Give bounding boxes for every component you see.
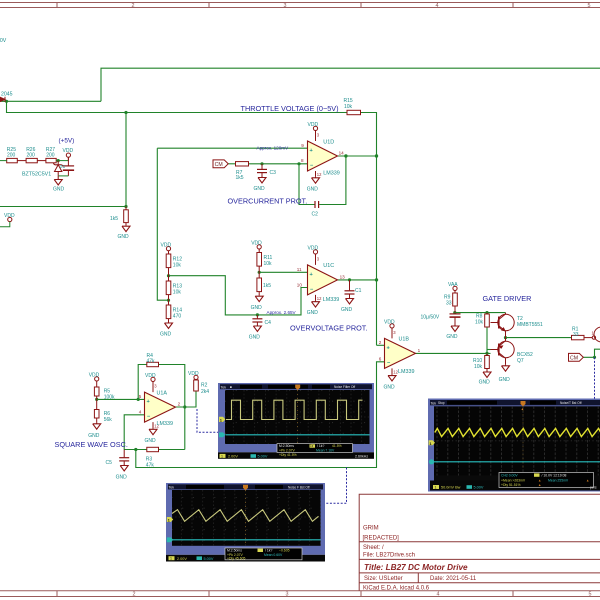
wire R4 feedback left	[138, 365, 147, 400]
wire U1C output	[338, 279, 377, 281]
wire Q7 base stub	[487, 349, 491, 351]
svg-text:GND: GND	[145, 438, 157, 444]
svg-text:+Dty 51.51%: +Dty 51.51%	[501, 483, 521, 487]
power VAA (R9)	[453, 286, 457, 290]
resistor R6	[94, 410, 99, 419]
ground (U1B pin12)	[388, 375, 396, 381]
node U1D output junction	[344, 154, 347, 157]
svg-text:50.0mV Bw: 50.0mV Bw	[441, 486, 461, 490]
svg-text:GND: GND	[307, 310, 319, 316]
ground (U1C pin12)	[312, 301, 320, 307]
svg-text:GND: GND	[341, 307, 353, 313]
svg-text:VDD: VDD	[89, 373, 100, 379]
resistor R3	[147, 447, 159, 451]
svg-text:5.00V: 5.00V	[474, 486, 484, 490]
svg-text:GND: GND	[479, 380, 491, 386]
ground symbol texts	[53, 186, 510, 481]
ground (Z1 cluster)	[54, 179, 62, 185]
svg-text:Approx. 120mV: Approx. 120mV	[257, 146, 290, 151]
CM flag 1	[213, 160, 228, 168]
svg-text:VDD: VDD	[308, 122, 319, 128]
svg-text:33: 33	[573, 332, 579, 338]
svg-text:[REDACTED]: [REDACTED]	[363, 535, 400, 541]
svg-text:2045: 2045	[1, 92, 13, 98]
svg-text:1k5: 1k5	[236, 175, 244, 181]
svg-text:GND: GND	[384, 384, 396, 390]
svg-text:R2: R2	[201, 383, 208, 389]
CM flag 2	[569, 353, 584, 361]
svg-text:KiCad E.D.A. kicad 4.0.6: KiCad E.D.A. kicad 4.0.6	[363, 585, 430, 591]
svg-text:Z1: Z1	[60, 164, 66, 169]
svg-text:VAA: VAA	[448, 282, 458, 288]
svg-text:■: ■	[230, 385, 232, 389]
svg-text:VDD: VDD	[308, 246, 319, 252]
svg-text:Mean 255mV: Mean 255mV	[548, 478, 569, 482]
ground (C5)	[120, 465, 128, 471]
resistor R7	[236, 162, 249, 166]
DASHED CONNECTORS	[197, 357, 595, 503]
svg-text:GND: GND	[249, 335, 260, 341]
svg-text:Mean 7.16V: Mean 7.16V	[316, 449, 335, 453]
svg-text:200: 200	[46, 152, 55, 158]
node throttle tap junction	[124, 111, 127, 114]
svg-text:VDD: VDD	[161, 242, 172, 248]
svg-text:C3: C3	[270, 170, 277, 176]
wire U1B plus stub	[377, 344, 385, 346]
svg-text:GND: GND	[499, 377, 511, 383]
CAP LABELS	[106, 170, 440, 466]
power VDD (R5)	[95, 377, 99, 381]
svg-text:LM339: LM339	[323, 171, 339, 177]
svg-text:Mean 0.60V: Mean 0.60V	[264, 553, 283, 557]
svg-text:4: 4	[436, 3, 439, 9]
wire R25-R26-R27 links	[0, 160, 7, 162]
svg-text:▲: ▲	[538, 478, 541, 482]
ground (R6)	[93, 423, 101, 429]
transistor Q7 BCX52	[487, 338, 514, 365]
node R9 filter junction	[453, 311, 456, 314]
resistor 1k5 (under R11)	[257, 278, 262, 292]
wire R8 to base node	[486, 327, 488, 353]
ground (R10)	[483, 371, 491, 377]
resistor R27	[46, 158, 56, 162]
resistor R1	[572, 335, 585, 339]
svg-text:OVERVOLTAGE PROT.: OVERVOLTAGE PROT.	[290, 324, 367, 333]
POWER SYMBOLS	[0, 126, 457, 381]
svg-text:THROTTLE VOLTAGE (0−5V): THROTTLE VOLTAGE (0−5V)	[241, 104, 339, 113]
svg-text:R5: R5	[104, 388, 111, 394]
svg-text:(+5V): (+5V)	[59, 137, 75, 144]
svg-text:R14: R14	[173, 308, 182, 314]
node R11 divider junction	[258, 271, 261, 274]
power VDD (left edge)	[0, 217, 12, 226]
svg-text:GND: GND	[160, 332, 172, 338]
wire gate output	[506, 337, 572, 339]
svg-text:▲: ▲	[521, 407, 524, 411]
wire U1C plus input	[259, 271, 307, 273]
svg-text:SQUARE WAVE OSC.: SQUARE WAVE OSC.	[55, 440, 128, 449]
motor connector J?	[592, 327, 600, 342]
svg-text:R13: R13	[173, 284, 182, 290]
svg-text:56k: 56k	[104, 417, 113, 423]
svg-text:GND: GND	[254, 186, 266, 192]
svg-text:▲: ▲	[586, 478, 589, 482]
svg-text:10k: 10k	[264, 261, 273, 267]
SCOPE 3 (triangle wave screenshot)	[166, 483, 325, 562]
power VDD (U1C)	[313, 250, 317, 254]
svg-text:+Dty 41.5%: +Dty 41.5%	[279, 453, 297, 457]
capacitor 10u/50V	[450, 314, 461, 325]
node C1 junction	[348, 278, 351, 281]
node base drive junction	[485, 352, 488, 355]
node CM probe junction	[593, 356, 596, 359]
RESISTORS	[0, 110, 592, 451]
svg-text:10: 10	[297, 282, 303, 287]
wire U1D plus input	[157, 147, 307, 149]
node R5-R6 junction	[95, 398, 98, 401]
wire left battery feed y=101	[0, 100, 101, 102]
ground (R14)	[165, 322, 173, 328]
power VDD (+5V cluster)	[66, 153, 70, 157]
wire gate driver top	[455, 312, 506, 314]
svg-text:2.00V: 2.00V	[228, 455, 238, 459]
resistor R26	[26, 158, 37, 162]
svg-text:10k: 10k	[474, 364, 483, 370]
svg-text:GRIM: GRIM	[363, 526, 379, 532]
resistor R8	[485, 314, 490, 327]
svg-text:R12: R12	[173, 256, 182, 262]
svg-text:+Dty 45.605: +Dty 45.605	[227, 556, 245, 560]
wire U1D minus input	[228, 163, 236, 165]
svg-text:3: 3	[284, 3, 287, 9]
resistor R25	[7, 158, 18, 162]
svg-text:12: 12	[317, 296, 322, 301]
svg-text:/ 10.0V 12:19:08: / 10.0V 12:19:08	[542, 474, 567, 478]
node battery feed junction	[5, 100, 8, 103]
svg-text:CH2 0.00V: CH2 0.00V	[501, 474, 518, 478]
svg-text:2.00V: 2.00V	[177, 557, 187, 561]
wire throttle drop	[7, 101, 348, 112]
svg-text:Noise Filter Off: Noise Filter Off	[334, 385, 355, 389]
svg-text:U1C: U1C	[323, 263, 334, 269]
svg-text:GND: GND	[446, 334, 458, 340]
TITLE-BLOCK	[359, 494, 600, 591]
dashed probe U1A output to scope1	[197, 409, 218, 432]
node push-pull output junction	[504, 336, 507, 339]
ground (1k5 under R11)	[255, 295, 263, 301]
svg-text:13: 13	[340, 274, 346, 279]
CAPACITORS	[63, 157, 461, 464]
node R13-R14 junction	[167, 299, 170, 302]
svg-text:CM: CM	[570, 356, 578, 362]
node C3 junction	[260, 162, 263, 165]
GND SYMBOLS	[54, 177, 509, 471]
svg-text:1k5: 1k5	[263, 283, 271, 289]
svg-text:2: 2	[379, 340, 382, 345]
op-amp U1C	[297, 254, 345, 303]
svg-text:41.5%: 41.5%	[332, 444, 342, 448]
resistor R13	[166, 281, 171, 295]
svg-text:GND: GND	[251, 305, 263, 311]
wire U1B output	[416, 352, 491, 354]
svg-text:5.00V: 5.00V	[258, 455, 268, 459]
svg-text:GND: GND	[53, 187, 65, 193]
svg-text:Stop: Stop	[438, 401, 445, 405]
svg-text:1: 1	[418, 348, 421, 353]
resistor R11	[257, 253, 262, 267]
resistor R15	[347, 110, 361, 114]
wire R12 junction jog	[169, 276, 308, 315]
node R8 top junction	[485, 311, 488, 314]
capacitor C2	[315, 201, 319, 208]
node bus-U1D junction	[375, 154, 378, 157]
svg-text:470: 470	[173, 314, 182, 320]
power VDD (R12)	[166, 247, 170, 251]
svg-text:Size: USLetter: Size: USLetter	[364, 576, 403, 582]
svg-text:1: 1	[170, 557, 172, 561]
svg-text:3: 3	[286, 592, 289, 598]
wire 1k5 divider drop	[125, 113, 127, 207]
zener Z1 BZT52C5V1	[53, 161, 68, 179]
op-amp U1B	[379, 328, 421, 375]
SCOPE 2 (ripple screenshot)	[428, 399, 600, 492]
svg-text:Title: LB27 DC Motor Drive: Title: LB27 DC Motor Drive	[364, 563, 468, 572]
svg-text:R6: R6	[104, 411, 111, 417]
svg-text:14: 14	[339, 151, 345, 156]
power VDD (R11)	[257, 245, 261, 249]
svg-text:11: 11	[297, 267, 302, 272]
svg-text:CM: CM	[215, 162, 223, 168]
svg-text:LM339: LM339	[398, 369, 414, 375]
svg-text:VDD: VDD	[145, 373, 156, 379]
svg-text:GND: GND	[118, 234, 130, 240]
capacitor +5V filter	[63, 157, 74, 176]
svg-text:10µ/50V: 10µ/50V	[421, 315, 440, 321]
svg-text:U1A: U1A	[157, 390, 168, 396]
svg-text:VDD: VDD	[251, 241, 262, 247]
wire y=206.5 to left	[0, 206, 126, 208]
node +5V rail junction	[57, 159, 60, 162]
svg-text:U1B: U1B	[399, 337, 410, 343]
svg-text:LM339: LM339	[323, 297, 339, 303]
svg-text:Sheet: /: Sheet: /	[363, 545, 384, 551]
svg-text:33: 33	[446, 301, 452, 307]
resistor R10	[485, 356, 490, 369]
transistor T2 MMBT5551	[491, 313, 515, 338]
svg-text:2.60kHz: 2.60kHz	[355, 454, 368, 458]
op-amp U1D	[301, 131, 344, 178]
wire R4 feedback right	[159, 365, 185, 450]
wire osc minus input	[124, 415, 144, 450]
capacitor C5	[119, 450, 129, 465]
power VDD (R2)	[194, 375, 198, 379]
ground (C1)	[346, 298, 354, 304]
svg-text:6: 6	[379, 357, 382, 362]
svg-text:5.00V: 5.00V	[204, 557, 214, 561]
wire R3 node	[124, 449, 147, 451]
svg-text:1: 1	[435, 485, 437, 489]
svg-text:/ 1k?: / 1k?	[317, 444, 324, 448]
node R12-R13 junction	[167, 274, 170, 277]
wire CM2 to edge	[583, 349, 600, 357]
svg-text:VDD: VDD	[63, 148, 74, 154]
svg-text:Noise/T Bst Off: Noise/T Bst Off	[560, 401, 582, 405]
wire C2 feedback loop	[299, 164, 315, 205]
resistor R12	[166, 254, 171, 268]
svg-text:10k: 10k	[173, 262, 182, 268]
diode fragment at left edge	[0, 97, 5, 102]
wire R15 to vertical	[361, 113, 377, 346]
svg-text:GATE DRIVER: GATE DRIVER	[483, 294, 532, 303]
wire 120mV riser	[157, 148, 168, 300]
svg-text:+Mean >263mV: +Mean >263mV	[501, 478, 526, 482]
svg-text:GND: GND	[307, 186, 319, 192]
svg-text:File: LB27Drive.sch: File: LB27Drive.sch	[363, 552, 415, 558]
svg-text:47k: 47k	[147, 358, 156, 364]
svg-text:C2: C2	[312, 212, 319, 218]
svg-text:C1: C1	[355, 288, 362, 294]
svg-text:8: 8	[301, 158, 304, 163]
svg-text:10k: 10k	[344, 104, 353, 110]
node R4 feedback junction	[137, 398, 140, 401]
ground (C3)	[258, 177, 266, 183]
svg-text:4: 4	[437, 592, 440, 598]
svg-text:OVERCURRENT PROT.: OVERCURRENT PROT.	[228, 197, 308, 206]
node divider junction	[124, 205, 127, 208]
capacitor C3	[257, 164, 267, 177]
svg-text:200: 200	[27, 152, 36, 158]
wire U1B minus vertical	[136, 362, 385, 468]
svg-text:9: 9	[301, 143, 304, 148]
resistor R4	[147, 362, 159, 366]
svg-text:2: 2	[133, 592, 136, 598]
node bus-U1C junction	[375, 278, 378, 281]
svg-text:10k: 10k	[173, 290, 182, 296]
wire U1D output	[338, 155, 377, 157]
NOTES	[55, 104, 532, 449]
svg-text:5: 5	[588, 3, 591, 9]
svg-text:Approx. 2.65V: Approx. 2.65V	[267, 310, 297, 315]
svg-text:VDD: VDD	[4, 213, 15, 219]
svg-text:BZT52C5V1: BZT52C5V1	[22, 171, 51, 177]
ground (C4)	[253, 325, 261, 331]
svg-text:47k: 47k	[146, 462, 155, 468]
svg-text:U1D: U1D	[323, 139, 334, 145]
svg-text:pers: pers	[590, 486, 597, 490]
svg-text:Date: 2021-05-11: Date: 2021-05-11	[430, 576, 477, 582]
svg-text:10k: 10k	[475, 320, 484, 326]
svg-text:M:2.50ms: M:2.50ms	[279, 444, 294, 448]
svg-text:VDD: VDD	[188, 371, 199, 377]
ground (1k5 divider)	[122, 225, 130, 231]
node U1A output junction	[183, 405, 186, 408]
svg-text:4: 4	[139, 410, 142, 415]
svg-text:LM339: LM339	[157, 421, 173, 427]
svg-text:R11: R11	[264, 255, 273, 261]
wire U1A output	[176, 391, 197, 407]
svg-text:1: 1	[221, 454, 223, 458]
node C4 junction	[256, 313, 259, 316]
svg-text:R3: R3	[146, 456, 153, 462]
svg-text:Tek: Tek	[169, 485, 175, 489]
svg-text:GND: GND	[116, 474, 128, 480]
svg-text:100k: 100k	[104, 395, 115, 401]
node integrator junction	[134, 448, 137, 451]
svg-text:Tek: Tek	[431, 401, 437, 405]
resistor R14	[166, 305, 171, 319]
wire top bus y=68	[101, 68, 600, 101]
ground (U1A pin12)	[149, 428, 157, 434]
power VDD (U1B)	[390, 324, 394, 328]
op-amp U1A	[139, 382, 181, 429]
SCOPE 1 (square wave screenshot)	[218, 383, 374, 459]
svg-text:2k4: 2k4	[201, 389, 209, 395]
dashed probe CM to scope2	[594, 357, 596, 398]
svg-text:50V: 50V	[0, 38, 7, 44]
svg-text:1k5: 1k5	[110, 216, 118, 222]
svg-text:5: 5	[139, 394, 142, 399]
svg-text:12: 12	[317, 172, 322, 177]
RESISTOR LABELS	[7, 98, 579, 468]
resistor R5	[94, 387, 99, 396]
ground (10u cap)	[451, 325, 459, 331]
ground (Q7)	[502, 365, 510, 371]
svg-text:5: 5	[589, 592, 592, 598]
wire osc plus input	[97, 398, 145, 400]
resistor 1k5 (throttle divider)	[124, 210, 129, 223]
capacitor C4	[252, 315, 262, 325]
svg-text:Tek: Tek	[221, 385, 227, 389]
svg-text:Noise F Bst Off: Noise F Bst Off	[288, 485, 310, 489]
node U1D minus junction	[297, 162, 300, 165]
dashed probe osc node to scope3	[325, 468, 347, 504]
svg-text:MMBT5551: MMBT5551	[517, 322, 543, 328]
svg-text:Q7: Q7	[517, 358, 524, 364]
svg-text:1▾: 1▾	[310, 444, 314, 448]
resistor R2	[194, 380, 199, 391]
svg-text:200: 200	[7, 152, 16, 158]
svg-text:▲: ▲	[538, 483, 541, 487]
svg-text:C4: C4	[265, 320, 272, 326]
capacitor C1	[345, 280, 355, 298]
svg-text:GND: GND	[88, 433, 100, 439]
svg-text:C5: C5	[106, 460, 113, 466]
power VDD (U1A)	[151, 377, 155, 381]
resistor R9	[453, 293, 458, 306]
svg-text:VDD: VDD	[384, 320, 395, 326]
power symbol texts VDD/VAA	[4, 122, 458, 379]
svg-text:2: 2	[132, 3, 135, 9]
power VDD (U1D)	[313, 126, 317, 130]
ground (U1D pin12)	[312, 177, 320, 183]
svg-text:2: 2	[178, 402, 181, 407]
